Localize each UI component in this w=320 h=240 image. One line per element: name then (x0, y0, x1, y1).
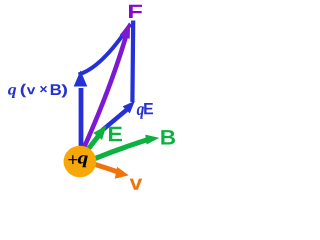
force vector F: purple arrowhead (120, 22, 131, 39)
label F (129, 5, 142, 18)
vector q(v x B): blue arrowhead (74, 71, 88, 87)
label B (161, 130, 175, 144)
label q(v x B): open paren (21, 84, 27, 98)
velocity vector v: orange arrowhead (115, 167, 129, 179)
force vector F: purple shaft (82, 30, 128, 152)
vector qE: blue shaft (99, 109, 127, 133)
vector q(v x B): blue shaft (79, 88, 84, 152)
label v (130, 179, 143, 190)
wire parallelogram side from q(vxB) tip to F corner (79, 24, 131, 75)
B field vector: green shaft (95, 140, 148, 159)
label q(v x B): times (40, 86, 47, 93)
E field vector: green shaft (88, 135, 100, 151)
E field vector: green arrowhead (93, 126, 106, 140)
velocity vector v: orange shaft (92, 164, 120, 173)
label q(v x B): q (8, 87, 16, 98)
label E (109, 127, 122, 141)
vector qE: blue arrowhead (123, 101, 135, 114)
label q(v x B): B (51, 84, 61, 95)
charge: orange circle (64, 146, 97, 178)
label q(v x B): close paren (61, 84, 67, 97)
B field vector: green arrowhead (145, 135, 159, 145)
label qE: q (137, 106, 144, 119)
charge label: q (78, 155, 88, 167)
label q(v x B): v (27, 87, 36, 94)
wire parallelogram right side from F corner down to qE tip (130, 21, 135, 103)
label qE: E (144, 103, 153, 114)
charge label: plus sign (68, 155, 77, 164)
